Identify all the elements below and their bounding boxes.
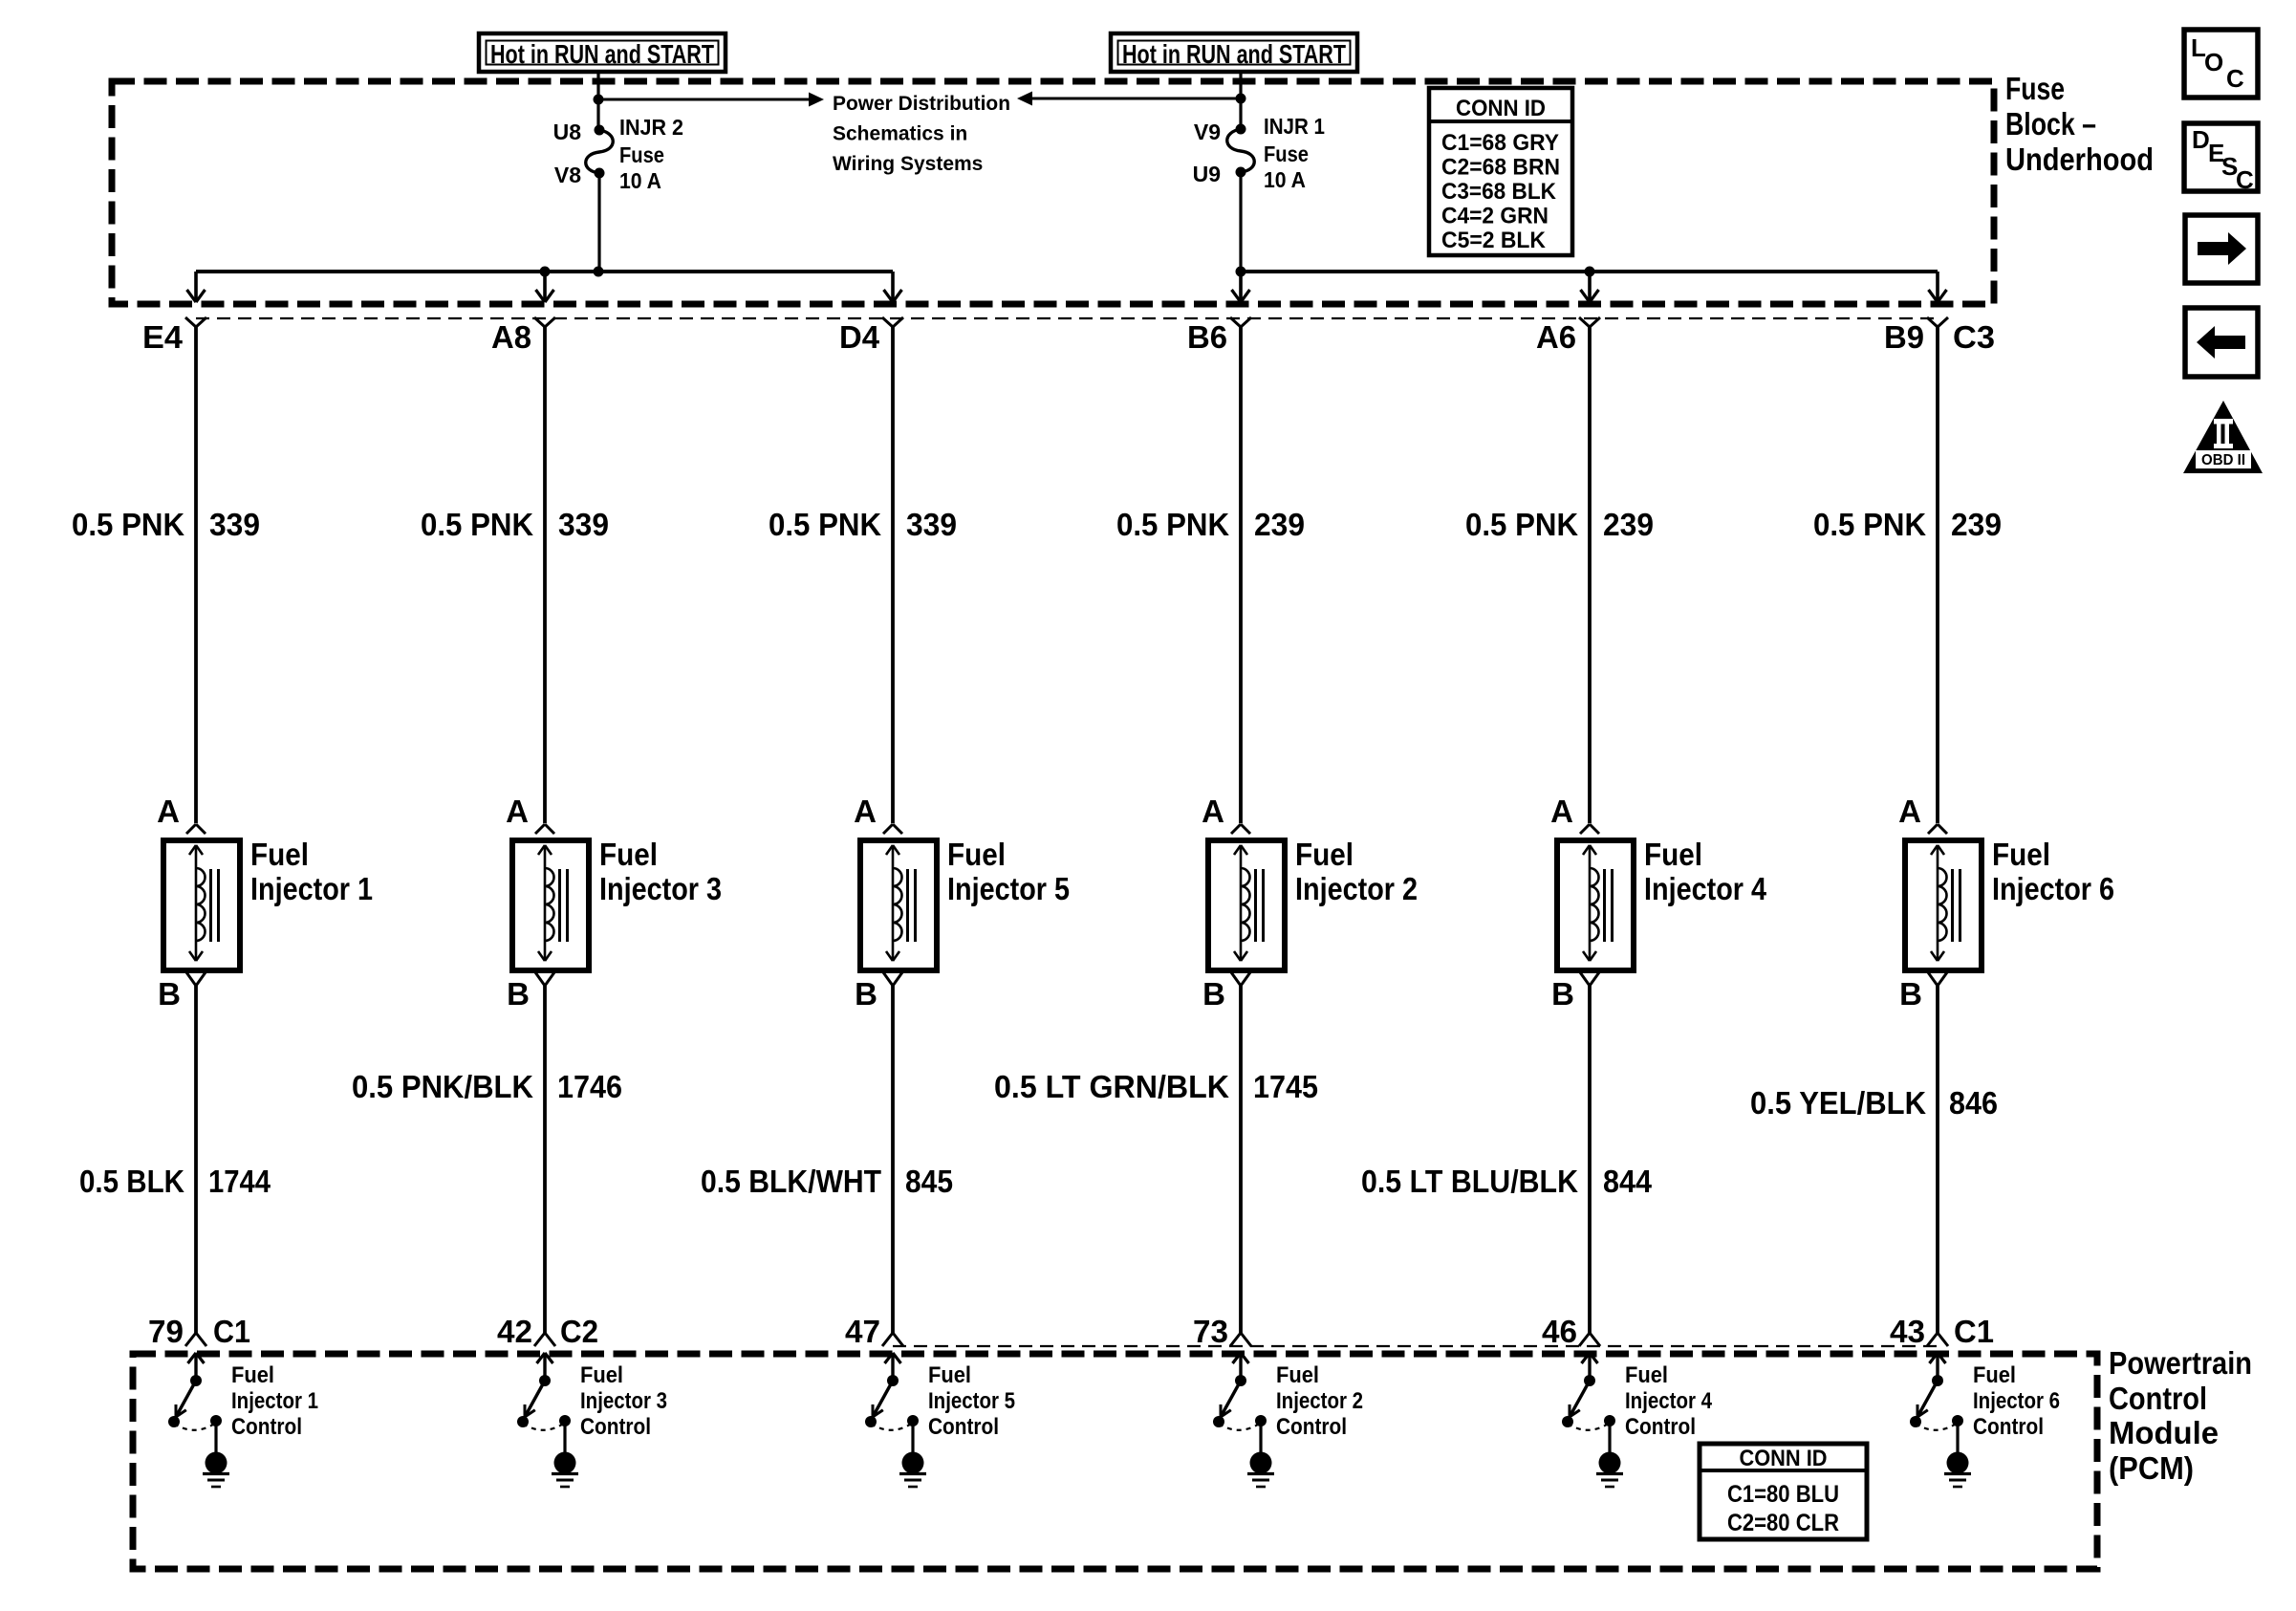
svg-text:A6: A6 — [1536, 319, 1576, 355]
svg-text:A8: A8 — [491, 319, 531, 355]
svg-text:1745: 1745 — [1253, 1069, 1318, 1104]
svg-text:339: 339 — [558, 507, 609, 542]
svg-text:CONN ID: CONN ID — [1456, 96, 1546, 121]
svg-text:Control: Control — [1625, 1414, 1696, 1440]
svg-text:C5=2 BLK: C5=2 BLK — [1441, 228, 1547, 253]
svg-text:C2: C2 — [560, 1314, 598, 1349]
svg-text:0.5 PNK: 0.5 PNK — [72, 507, 184, 542]
svg-text:0.5 PNK: 0.5 PNK — [769, 507, 881, 542]
svg-text:C1=80 BLU: C1=80 BLU — [1727, 1481, 1839, 1508]
svg-text:U8: U8 — [553, 120, 582, 144]
svg-text:A: A — [1550, 794, 1573, 829]
svg-text:Hot in RUN and START: Hot in RUN and START — [1122, 39, 1346, 69]
svg-text:B: B — [507, 976, 530, 1012]
svg-text:A: A — [1202, 794, 1224, 829]
svg-text:C3=68 BLK: C3=68 BLK — [1441, 179, 1557, 205]
svg-text:47: 47 — [845, 1314, 880, 1349]
svg-text:Fuel: Fuel — [928, 1362, 971, 1388]
svg-text:Fuel: Fuel — [947, 837, 1006, 872]
svg-text:B: B — [158, 976, 181, 1012]
svg-text:0.5 YEL/BLK: 0.5 YEL/BLK — [1750, 1085, 1926, 1121]
svg-text:Block –: Block – — [2005, 106, 2096, 142]
svg-text:0.5 PNK: 0.5 PNK — [1465, 507, 1578, 542]
svg-text:V8: V8 — [554, 163, 581, 187]
svg-text:Injector 2: Injector 2 — [1295, 871, 1418, 906]
svg-text:E4: E4 — [142, 319, 184, 355]
svg-text:0.5 PNK/BLK: 0.5 PNK/BLK — [352, 1069, 533, 1104]
svg-text:Fuel: Fuel — [580, 1362, 623, 1388]
svg-text:Injector 6: Injector 6 — [1992, 871, 2114, 906]
svg-text:A: A — [506, 794, 529, 829]
svg-text:Wiring Systems: Wiring Systems — [833, 153, 983, 175]
svg-text:C4=2 GRN: C4=2 GRN — [1441, 204, 1549, 229]
svg-text:V9: V9 — [1194, 120, 1221, 144]
svg-text:Fuse: Fuse — [619, 142, 664, 167]
svg-text:C: C — [2236, 165, 2254, 194]
svg-text:339: 339 — [209, 507, 260, 542]
svg-text:C1: C1 — [1954, 1314, 1994, 1349]
svg-text:845: 845 — [905, 1164, 953, 1199]
svg-text:D4: D4 — [839, 319, 880, 355]
svg-text:Underhood: Underhood — [2005, 142, 2154, 177]
svg-text:1746: 1746 — [557, 1069, 622, 1104]
svg-text:Fuel: Fuel — [1295, 837, 1354, 872]
svg-text:INJR 2: INJR 2 — [619, 115, 683, 140]
svg-text:Fuel: Fuel — [231, 1362, 274, 1388]
svg-text:Fuel: Fuel — [1973, 1362, 2016, 1388]
svg-text:B: B — [1551, 976, 1574, 1012]
svg-text:A: A — [854, 794, 877, 829]
svg-text:Power Distribution: Power Distribution — [833, 93, 1010, 115]
svg-text:INJR 1: INJR 1 — [1264, 114, 1325, 139]
svg-text:Injector 6: Injector 6 — [1973, 1388, 2060, 1414]
svg-text:B: B — [855, 976, 877, 1012]
svg-text:0.5 BLK: 0.5 BLK — [79, 1164, 184, 1199]
svg-text:0.5 BLK/WHT: 0.5 BLK/WHT — [701, 1164, 881, 1199]
svg-text:(PCM): (PCM) — [2109, 1450, 2194, 1486]
svg-text:Fuel: Fuel — [1625, 1362, 1668, 1388]
svg-text:Injector 1: Injector 1 — [231, 1388, 318, 1414]
svg-text:79: 79 — [148, 1314, 184, 1349]
svg-text:Fuel: Fuel — [1276, 1362, 1319, 1388]
svg-text:Injector 3: Injector 3 — [599, 871, 722, 906]
svg-text:Injector 5: Injector 5 — [947, 871, 1070, 906]
svg-text:0.5 PNK: 0.5 PNK — [421, 507, 533, 542]
svg-text:239: 239 — [1951, 507, 2002, 542]
svg-text:Control: Control — [580, 1414, 651, 1440]
svg-text:B6: B6 — [1187, 319, 1227, 355]
svg-text:Fuel: Fuel — [1644, 837, 1702, 872]
svg-text:C: C — [2226, 64, 2244, 93]
svg-text:Fuse: Fuse — [2005, 71, 2065, 106]
svg-text:0.5 PNK: 0.5 PNK — [1813, 507, 1926, 542]
svg-text:844: 844 — [1603, 1164, 1653, 1199]
svg-text:1744: 1744 — [208, 1164, 271, 1199]
svg-text:Fuse: Fuse — [1264, 142, 1309, 166]
svg-text:73: 73 — [1193, 1314, 1228, 1349]
svg-text:Injector 4: Injector 4 — [1644, 871, 1767, 906]
svg-text:Powertrain: Powertrain — [2109, 1345, 2252, 1381]
svg-text:Schematics in: Schematics in — [833, 123, 967, 145]
svg-text:Fuel: Fuel — [599, 837, 658, 872]
svg-text:Injector 4: Injector 4 — [1625, 1388, 1713, 1414]
svg-text:10 A: 10 A — [619, 168, 661, 193]
svg-text:C2=80 CLR: C2=80 CLR — [1727, 1510, 1839, 1536]
svg-text:O: O — [2204, 48, 2223, 76]
svg-text:B: B — [1899, 976, 1922, 1012]
svg-text:OBD II: OBD II — [2201, 452, 2245, 468]
svg-text:43: 43 — [1890, 1314, 1925, 1349]
svg-text:10 A: 10 A — [1264, 167, 1306, 192]
svg-text:Control: Control — [2109, 1381, 2207, 1416]
svg-text:46: 46 — [1542, 1314, 1577, 1349]
svg-text:Control: Control — [231, 1414, 302, 1440]
svg-text:Injector 5: Injector 5 — [928, 1388, 1015, 1414]
svg-text:0.5 LT GRN/BLK: 0.5 LT GRN/BLK — [994, 1069, 1229, 1104]
svg-text:U9: U9 — [1193, 162, 1221, 186]
svg-text:Fuel: Fuel — [250, 837, 309, 872]
svg-text:Control: Control — [1973, 1414, 2044, 1440]
svg-text:Hot in RUN and START: Hot in RUN and START — [490, 39, 714, 69]
svg-text:Fuel: Fuel — [1992, 837, 2050, 872]
svg-text:Control: Control — [928, 1414, 999, 1440]
svg-text:Injector 1: Injector 1 — [250, 871, 373, 906]
svg-text:239: 239 — [1254, 507, 1305, 542]
svg-text:42: 42 — [497, 1314, 532, 1349]
svg-text:Control: Control — [1276, 1414, 1347, 1440]
svg-text:Injector 3: Injector 3 — [580, 1388, 667, 1414]
svg-text:Module: Module — [2109, 1415, 2219, 1450]
svg-text:0.5 PNK: 0.5 PNK — [1116, 507, 1229, 542]
svg-text:CONN ID: CONN ID — [1740, 1446, 1828, 1471]
svg-text:C2=68 BRN: C2=68 BRN — [1441, 155, 1560, 181]
svg-text:A: A — [157, 794, 180, 829]
svg-text:846: 846 — [1949, 1085, 1998, 1121]
svg-text:C1: C1 — [213, 1314, 250, 1349]
svg-text:239: 239 — [1603, 507, 1654, 542]
svg-text:B9: B9 — [1884, 319, 1924, 355]
svg-text:B: B — [1202, 976, 1225, 1012]
svg-text:0.5 LT BLU/BLK: 0.5 LT BLU/BLK — [1361, 1164, 1578, 1199]
svg-text:339: 339 — [906, 507, 957, 542]
svg-text:D: D — [2192, 125, 2210, 154]
svg-text:C3: C3 — [1953, 319, 1995, 355]
svg-text:A: A — [1898, 794, 1921, 829]
svg-text:C1=68 GRY: C1=68 GRY — [1441, 130, 1559, 156]
svg-text:Injector 2: Injector 2 — [1276, 1388, 1363, 1414]
